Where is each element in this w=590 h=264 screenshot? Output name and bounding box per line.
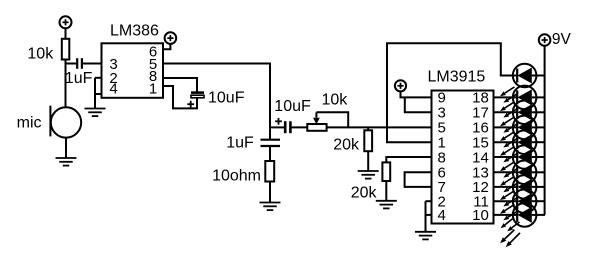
ground <box>358 171 379 179</box>
svg-text:10: 10 <box>472 207 489 224</box>
wire <box>269 182 271 203</box>
wire node to C3 <box>270 126 285 128</box>
svg-text:4: 4 <box>438 207 446 224</box>
LED D1 (pin 1, top) <box>512 68 545 84</box>
label C3 value 10uF <box>274 98 311 115</box>
ground <box>415 232 436 240</box>
label C2 value 10uF <box>208 89 245 106</box>
LED D8 (pin 12) <box>494 176 546 195</box>
potentiometer VR1 wiper arrow <box>313 112 320 124</box>
wire pin2 stub <box>95 77 102 79</box>
LED emission arrows (short, below column) <box>501 219 520 232</box>
pin numbers U1 left (3,2,4) <box>109 56 117 98</box>
svg-text:1: 1 <box>149 81 157 98</box>
pin numbers U1 right (6,5,8,1) <box>149 44 157 98</box>
label R1 value 10k <box>27 46 54 63</box>
wire <box>385 181 387 201</box>
LED emission arrows (long, bottom) <box>500 230 520 248</box>
wire 9V anode bus <box>544 46 546 215</box>
capacitor C1 1uF (input coupling) <box>77 58 82 69</box>
svg-text:1uF: 1uF <box>226 135 254 152</box>
wire <box>65 28 67 39</box>
LED D4 (pin 16) <box>494 117 546 135</box>
svg-text:1uF: 1uF <box>65 70 93 87</box>
wire <box>367 127 369 130</box>
svg-text:10k: 10k <box>27 46 54 63</box>
wire pin6 to V+ <box>163 44 170 49</box>
ground <box>85 109 106 117</box>
svg-text:20k: 20k <box>333 137 360 154</box>
label R2 value 10ohm <box>212 167 261 184</box>
wire <box>367 151 369 171</box>
wire pins2/4 to ground <box>94 78 96 109</box>
LED D7 (pin 13) <box>494 162 546 181</box>
capacitor C3 10uF (output coupling) <box>285 121 290 133</box>
op-amp U1 LM386 body <box>102 43 164 98</box>
svg-text:4: 4 <box>109 81 117 98</box>
ground <box>260 203 281 211</box>
label C3 polarity + <box>275 118 282 125</box>
potentiometer VR1 10k body <box>307 124 326 131</box>
wire wiper to track <box>316 112 348 127</box>
resistor R2 10ohm <box>265 161 274 182</box>
power 9V battery <box>539 34 551 46</box>
wire <box>82 63 102 65</box>
resistor R4 20k (ref adjust) <box>382 162 390 181</box>
wire pin6 pin7 loop <box>405 172 432 187</box>
wire pin1 to C2 <box>163 86 197 108</box>
wire <box>65 138 67 158</box>
label C1 value 1uF <box>65 70 93 87</box>
svg-text:10ohm: 10ohm <box>212 167 261 184</box>
power V+ LM386 pin 6 <box>165 32 177 44</box>
mic MK1 electret <box>50 106 81 138</box>
label VR1 value 10k <box>322 92 349 109</box>
label mic <box>17 115 42 132</box>
resistor R3 20k (divider top) <box>364 130 372 151</box>
svg-text:LM386: LM386 <box>110 22 159 39</box>
wire pin4 stub <box>95 93 102 95</box>
ground <box>376 201 397 209</box>
label R3 value 20k <box>333 137 360 154</box>
label U1 LM386 <box>110 22 159 39</box>
node mic-R1-C1 junction wire <box>66 63 78 65</box>
capacitor C2 10uF (gain, pins 1-8) <box>191 91 204 97</box>
label U2 LM3915 <box>428 68 486 85</box>
ground <box>56 158 77 166</box>
wire <box>269 146 271 161</box>
power V+ supply (mic bias) <box>60 16 72 28</box>
svg-text:LM3915: LM3915 <box>428 68 486 85</box>
wire signal to LM3915 pin5 <box>327 126 432 128</box>
svg-text:10uF: 10uF <box>208 89 245 106</box>
svg-text:20k: 20k <box>351 184 378 201</box>
svg-text:9V: 9V <box>552 31 572 48</box>
wire pins2/4 to ground <box>425 201 427 232</box>
LED bodies D1-D10 (circles) <box>513 64 537 227</box>
label C2 polarity + <box>187 101 194 108</box>
wire pin2 stub <box>426 200 432 202</box>
label C4 value 1uF <box>226 135 254 152</box>
LED D5 (pin 15) <box>494 132 546 151</box>
LED D9 (pin 11) <box>494 191 546 210</box>
wire <box>65 60 67 108</box>
LED D10 (pin 10) <box>494 204 546 223</box>
wire pin8 to R4 <box>386 157 431 162</box>
wire pin5 output <box>163 64 270 140</box>
pin numbers U2 right (18-10) <box>472 90 489 225</box>
wire pin9 to pin3 <box>405 97 432 112</box>
LED D3 (pin 17) <box>494 102 546 121</box>
label R4 value 20k <box>351 184 378 201</box>
pin numbers U2 left (9,3,5,1,8,6,7,2,4) <box>438 90 446 225</box>
label 9V <box>552 31 572 48</box>
IC U2 LM3915 body <box>432 91 494 224</box>
LED D6 (pin 14) <box>494 147 546 166</box>
svg-text:10k: 10k <box>322 92 349 109</box>
wire <box>290 126 307 128</box>
svg-text:10uF: 10uF <box>274 98 311 115</box>
resistor R1 10k (mic bias) <box>62 39 70 60</box>
wire pin8 to C2 <box>163 78 197 92</box>
wire pin4 stub <box>426 214 432 216</box>
wire pin1 to LED D1 (over the top) <box>387 43 512 142</box>
wire V+ to pin9 <box>401 91 432 97</box>
power V+ LM3915 pin 3 <box>395 80 406 91</box>
LED D2 (pin 18) <box>494 87 546 106</box>
capacitor C4 1uF (to ground) <box>261 140 281 146</box>
svg-text:mic: mic <box>17 115 42 132</box>
